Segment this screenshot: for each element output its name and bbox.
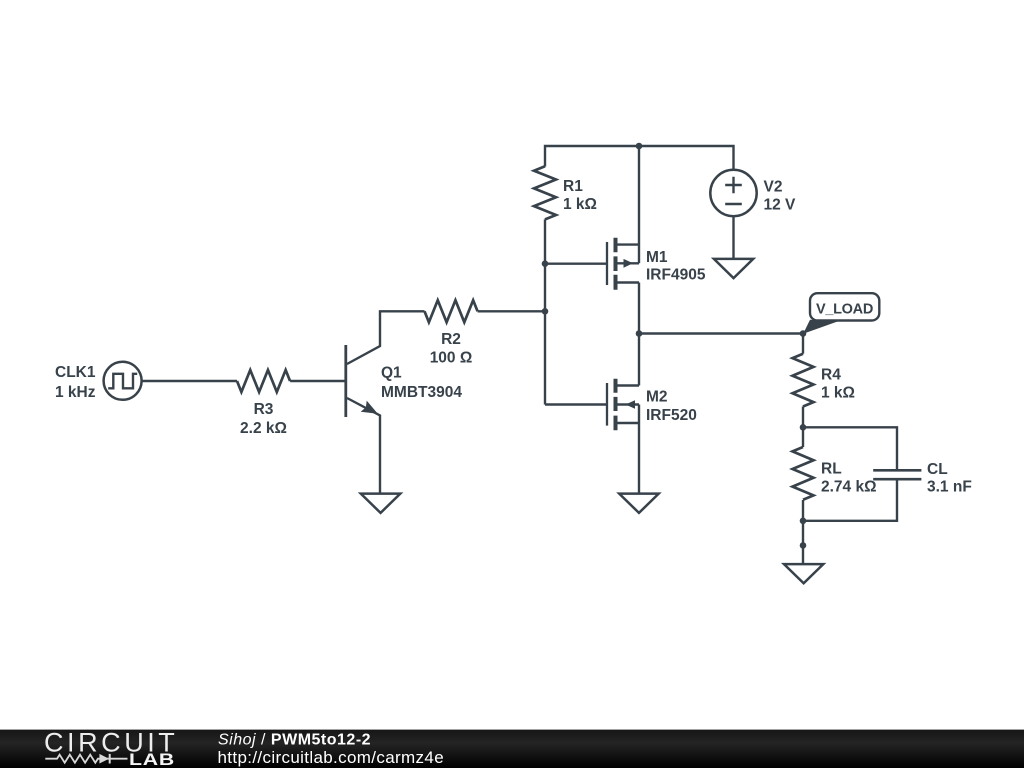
- ground under RL: [784, 564, 823, 583]
- svg-text:R1: R1: [563, 178, 583, 195]
- svg-text:2.2 kΩ: 2.2 kΩ: [240, 420, 287, 437]
- logo resistor-diode glyph: [45, 755, 127, 763]
- wire CLK1 to R3: [142, 380, 237, 382]
- ground under M2: [619, 494, 659, 513]
- svg-text:CLK1: CLK1: [55, 364, 96, 381]
- wire M1 drain to V_LOAD: [638, 283, 640, 334]
- svg-text:MMBT3904: MMBT3904: [381, 384, 462, 401]
- transistor Q1: [344, 345, 347, 417]
- svg-text:R4: R4: [821, 366, 841, 383]
- svg-text:1 kHz: 1 kHz: [55, 384, 96, 401]
- node V_LOAD left junction: [636, 330, 643, 337]
- mosfet M1: [606, 242, 608, 285]
- wire V2 to ground: [732, 216, 734, 259]
- wire M2 drain to V_LOAD: [638, 334, 640, 386]
- svg-text:R3: R3: [254, 401, 274, 418]
- resistor RL: [793, 447, 814, 500]
- svg-text:M1: M1: [646, 249, 668, 266]
- svg-text:IRF520: IRF520: [646, 407, 697, 424]
- node R4-RL junction: [800, 424, 807, 431]
- wire top rail VCC: [545, 146, 734, 170]
- wire Q1 collector to R2: [347, 311, 425, 364]
- resistor R4: [793, 354, 814, 407]
- svg-text:R2: R2: [441, 331, 461, 348]
- capacitor CL: [873, 469, 921, 472]
- mosfet M2: [606, 383, 608, 426]
- svg-text:LAB: LAB: [129, 751, 175, 768]
- wire M2 gate: [545, 403, 607, 405]
- ground under Q1: [361, 494, 401, 513]
- node VCC rail junction: [636, 143, 643, 150]
- wire R1 bottom to M2 gate corner: [544, 219, 546, 404]
- svg-text:Q1: Q1: [381, 365, 402, 382]
- wire R4 to RL: [802, 407, 804, 448]
- node gate M1 junction: [542, 260, 549, 267]
- wire M1 gate: [545, 263, 607, 265]
- resistor R3: [237, 370, 290, 392]
- wire CL bottom branch: [803, 479, 897, 521]
- node ground junction: [800, 542, 807, 549]
- node V_LOAD right junction: [800, 330, 807, 337]
- logo diode symbol: [99, 754, 109, 764]
- wire CL top branch: [803, 427, 897, 470]
- resistor R2: [425, 300, 478, 322]
- clock source CLK1: [104, 362, 142, 400]
- footer bar: [0, 730, 1024, 768]
- svg-text:http://circuitlab.com/carmz4e: http://circuitlab.com/carmz4e: [218, 748, 445, 767]
- svg-text:V2: V2: [764, 178, 783, 195]
- svg-text:100 Ω: 100 Ω: [430, 350, 473, 367]
- svg-text:3.1 nF: 3.1 nF: [927, 478, 972, 495]
- svg-text:V_LOAD: V_LOAD: [816, 302, 873, 318]
- svg-text:1 kΩ: 1 kΩ: [821, 384, 855, 401]
- wire M2 source to ground: [638, 405, 640, 494]
- wire R2 output node junction: [542, 308, 549, 315]
- ground under V2: [714, 259, 753, 278]
- wire R3 to Q1 base: [290, 380, 346, 382]
- node RL-CL junction: [800, 518, 807, 525]
- svg-text:12 V: 12 V: [764, 196, 797, 213]
- wire V_LOAD net: [639, 332, 803, 334]
- svg-text:M2: M2: [646, 389, 668, 406]
- wire RL bottom: [802, 500, 804, 564]
- svg-text:2.74 kΩ: 2.74 kΩ: [821, 479, 877, 496]
- svg-text:CL: CL: [927, 461, 948, 478]
- net label V_LOAD: [803, 320, 837, 334]
- voltage source V2: [710, 170, 756, 216]
- wire R2 to gate node: [478, 310, 545, 312]
- wire M1 source to rail: [638, 146, 640, 263]
- svg-text:RL: RL: [821, 461, 842, 478]
- svg-text:Sihoj / PWM5to12-2: Sihoj / PWM5to12-2: [218, 731, 371, 748]
- svg-text:IRF4905: IRF4905: [646, 267, 706, 284]
- svg-text:1 kΩ: 1 kΩ: [563, 196, 597, 213]
- wire V_LOAD to R4: [802, 334, 804, 354]
- resistor R1: [534, 166, 556, 219]
